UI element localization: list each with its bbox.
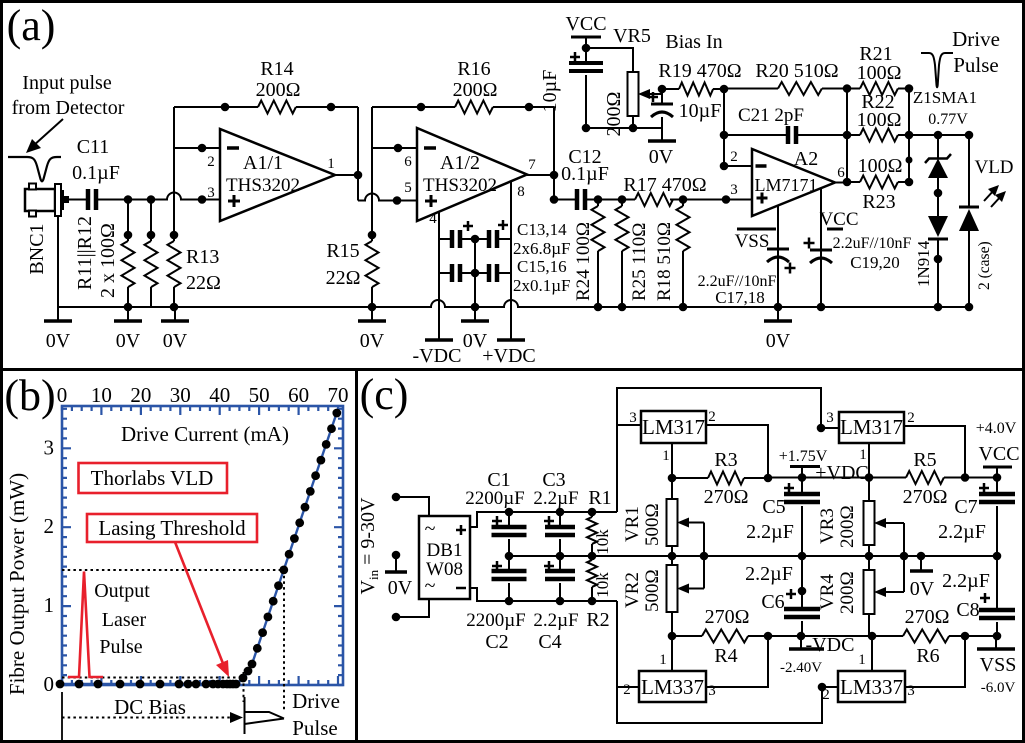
ground symbol R15 [371, 307, 373, 320]
VCC tick and label [827, 228, 843, 231]
svg-text:R19 470Ω: R19 470Ω [658, 60, 741, 82]
resistor R13 [173, 148, 175, 241]
resistor R2 10k [591, 556, 593, 560]
svg-text:70: 70 [328, 383, 349, 407]
svg-text:Pulse: Pulse [292, 716, 338, 740]
wire inverting node vertical of A2 [723, 89, 725, 166]
svg-text:Output: Output [94, 580, 150, 602]
resistor R23 100 [847, 181, 860, 183]
wire DB1 + output to top rail [470, 512, 617, 527]
svg-text:Drive: Drive [952, 27, 1000, 51]
capacitor C12 [575, 189, 580, 210]
svg-text:0V: 0V [649, 146, 674, 168]
axis ticks [62, 406, 343, 685]
svg-text:VCC: VCC [819, 209, 858, 230]
svg-text:1: 1 [662, 448, 670, 464]
wire A1/1 output node [335, 174, 358, 176]
svg-text:Input pulse: Input pulse [22, 72, 112, 94]
svg-text:R13: R13 [186, 246, 219, 268]
svg-text:2200µF: 2200µF [466, 610, 526, 631]
svg-text:200Ω: 200Ω [837, 571, 858, 614]
capacitor C4 2.2uF [559, 556, 561, 571]
svg-text:C21 2pF: C21 2pF [738, 105, 804, 126]
svg-text:Bias In: Bias In [665, 31, 722, 53]
svg-text:VR5: VR5 [613, 25, 651, 47]
decoupling caps C13,C14 row [439, 238, 452, 240]
VSS bar and label [737, 228, 776, 231]
svg-text:2: 2 [907, 410, 915, 426]
panel divider vertical [355, 370, 358, 743]
capacitor C21 2pF wire [724, 134, 788, 136]
svg-text:R17 470Ω: R17 470Ω [623, 174, 706, 196]
arrow to input pulse symbol [33, 119, 63, 146]
svg-text:20: 20 [130, 383, 151, 407]
ground symbol R11R12 [127, 307, 129, 320]
svg-text:C8: C8 [956, 599, 979, 621]
svg-text:LM317: LM317 [642, 415, 705, 439]
svg-text:C7: C7 [954, 496, 977, 518]
svg-text:DC Bias: DC Bias [114, 695, 186, 719]
svg-text:-VDC: -VDC [413, 345, 462, 367]
+VDC rail wire [768, 477, 869, 479]
svg-text:200Ω: 200Ω [603, 92, 625, 137]
red arrow to threshold point [175, 542, 224, 666]
wire raw + to regulators top [617, 388, 821, 512]
plot frame [62, 406, 343, 685]
svg-text:0V: 0V [163, 330, 188, 352]
dotted vertical at drive current [283, 570, 285, 712]
wire BNC pin to C11 [68, 199, 88, 201]
svg-text:3: 3 [907, 683, 915, 699]
svg-text:R6: R6 [916, 645, 939, 667]
wire LM317#2 out pin2 [904, 426, 965, 478]
wire C11 to A1/1 + input (hop over feedback tap) [96, 193, 220, 200]
bias 0V rail [586, 127, 662, 129]
svg-text:Z1SMA1: Z1SMA1 [913, 88, 977, 107]
svg-text:2.2uF//10nF: 2.2uF//10nF [833, 235, 912, 252]
wire output node to C12 [554, 199, 577, 201]
svg-text:Thorlabs VLD: Thorlabs VLD [91, 466, 214, 490]
wire VR5 bottom to 0V rail [632, 116, 634, 128]
wire A1/2 output [527, 174, 554, 176]
VLD emission arrows [984, 189, 995, 201]
feedback wire R14 top [174, 106, 258, 108]
svg-text:A1/2: A1/2 [440, 152, 480, 174]
svg-text:C4: C4 [538, 631, 561, 653]
red box Thorlabs VLD [79, 463, 228, 493]
resistor R6 270 (drawn on rail) [901, 627, 953, 645]
svg-text:10k: 10k [593, 572, 612, 598]
ground 0V bias [661, 128, 663, 140]
svg-text:0V: 0V [46, 330, 71, 352]
svg-text:270Ω: 270Ω [903, 486, 948, 508]
svg-text:200Ω: 200Ω [837, 505, 858, 548]
svg-text:VSS: VSS [980, 654, 1017, 676]
svg-text:3: 3 [730, 182, 738, 198]
svg-text:A1/1: A1/1 [243, 152, 283, 174]
resistor R24 [597, 200, 599, 207]
svg-text:-2.40V: -2.40V [780, 660, 822, 676]
capacitor C5 2.2uF [801, 478, 803, 495]
junction dots on input signal wire [124, 195, 133, 204]
ground symbol BNC [57, 307, 59, 320]
capacitor C7 2.2uF [996, 478, 998, 495]
0V stub on mid rail [920, 556, 922, 570]
feedback vertical wires [846, 89, 848, 183]
wire A1/1 inverting input pin 2 [174, 147, 220, 149]
resistor R5 270 [869, 477, 906, 479]
VR2 wiper wire [703, 556, 705, 589]
svg-text:R18 510Ω: R18 510Ω [654, 222, 675, 301]
svg-text:R4: R4 [714, 645, 737, 667]
wire feedback tap vertical (A1/1 inverting node) [173, 107, 175, 148]
svg-text:-6.0V: -6.0V [981, 680, 1016, 696]
svg-text:~: ~ [425, 575, 436, 597]
svg-text:2: 2 [207, 154, 215, 170]
wire LM337#2 adj pin1 [871, 636, 873, 671]
svg-text:C13,14: C13,14 [517, 220, 567, 239]
A2 VCC supply wire [820, 188, 822, 307]
svg-text:40: 40 [209, 383, 230, 407]
svg-text:Drive: Drive [292, 689, 340, 713]
svg-text:200Ω: 200Ω [256, 79, 301, 101]
data points [56, 680, 65, 689]
ground rail of panel a [58, 300, 969, 307]
svg-text:(b): (b) [4, 371, 55, 420]
resistor R16 [455, 101, 493, 114]
svg-text:R25 110Ω: R25 110Ω [629, 223, 650, 301]
wire A2 output to laser diodes [909, 134, 969, 136]
ground symbol R13 [174, 307, 176, 320]
svg-text:R3: R3 [714, 449, 737, 471]
svg-text:6: 6 [404, 154, 412, 170]
svg-text:2.2µF: 2.2µF [533, 488, 578, 509]
svg-text:50: 50 [249, 383, 270, 407]
wire stage2 feedback tap vertical [371, 107, 373, 241]
svg-text:BNC1: BNC1 [26, 223, 48, 274]
svg-text:C17,18: C17,18 [715, 288, 765, 307]
input pulse waveform symbol [8, 157, 61, 181]
svg-text:500Ω: 500Ω [642, 503, 663, 546]
svg-text:60: 60 [288, 383, 309, 407]
VCC symbol +4.0V [983, 466, 1012, 469]
wire C12 to A2 + input [585, 199, 635, 201]
op-amp U A1/1 THS3202 [220, 129, 335, 221]
svg-text:0V: 0V [388, 577, 413, 599]
svg-text:Laser: Laser [102, 609, 147, 631]
resistor R22 100 [847, 134, 860, 136]
VSS symbol [995, 636, 997, 648]
regulator LM317 #2 [839, 412, 904, 443]
svg-text:2200µF: 2200µF [465, 488, 525, 509]
svg-text:3: 3 [629, 410, 637, 426]
wire LM337#1 out pin3 [706, 636, 768, 687]
svg-text:2x0.1µF: 2x0.1µF [513, 276, 571, 295]
svg-text:A2: A2 [794, 148, 818, 170]
svg-text:VCC: VCC [565, 13, 606, 35]
svg-text:R14: R14 [260, 58, 293, 80]
svg-text:6: 6 [837, 165, 845, 181]
svg-text:THS3202: THS3202 [226, 175, 300, 196]
svg-text:Drive Current (mA): Drive Current (mA) [121, 422, 289, 446]
svg-text:VLD: VLD [974, 157, 1013, 178]
wire A2 pin 2 [724, 165, 752, 167]
resistor R12 (R11||R12 pair, right) [150, 200, 152, 242]
wire output down to C12 [553, 175, 555, 200]
feedback wire R16 top [372, 106, 455, 108]
wire R16 right to output node [553, 107, 555, 175]
svg-text:3: 3 [708, 683, 716, 699]
capacitor C6 2.2uF [801, 556, 803, 609]
svg-text:+4.0V: +4.0V [976, 420, 1017, 437]
red box Lasing Threshold [87, 514, 257, 542]
svg-text:5: 5 [404, 180, 412, 196]
svg-text:2: 2 [822, 687, 830, 703]
svg-text:R24 100Ω: R24 100Ω [573, 222, 594, 301]
zener Z1SMA1 [937, 135, 939, 158]
svg-text:+VDC: +VDC [815, 462, 869, 484]
wire DB1 - output to bottom rail [470, 588, 617, 601]
dotted threshold level line [62, 569, 284, 571]
svg-text:DB1: DB1 [427, 540, 463, 561]
regulator LM337 #1 [639, 671, 706, 702]
svg-text:0.1µF: 0.1µF [561, 163, 609, 185]
svg-text:270Ω: 270Ω [905, 606, 950, 628]
svg-text:7: 7 [528, 157, 536, 173]
wire LM317#1 adj pin1 [671, 443, 673, 478]
svg-text:2.2µF: 2.2µF [745, 563, 793, 585]
svg-text:from Detector: from Detector [12, 97, 125, 119]
svg-text:2: 2 [44, 514, 55, 538]
ground +VDC [510, 338, 512, 340]
wire LM337#2 out pin3 [905, 636, 965, 687]
middle 0V rail [509, 555, 997, 557]
svg-text:(a): (a) [7, 1, 56, 50]
capacitor C8 2.2uF [996, 556, 998, 610]
+VDC symbol [790, 465, 820, 468]
wire pin 4 supply of A1/2 [438, 212, 440, 338]
capacitor C19,20 (curved) [810, 249, 832, 252]
svg-text:2: 2 [623, 682, 631, 698]
svg-text:2 (case): 2 (case) [976, 241, 993, 290]
wire VR5 wiper node [661, 89, 663, 104]
svg-text:0V: 0V [766, 330, 791, 352]
svg-text:C5: C5 [762, 496, 785, 518]
svg-text:R11||R12: R11||R12 [74, 216, 96, 290]
svg-text:0V: 0V [360, 330, 385, 352]
resistor R20 510 [724, 88, 778, 90]
svg-text:3: 3 [44, 435, 55, 459]
A2 VSS supply wire [777, 205, 779, 307]
svg-text:270Ω: 270Ω [705, 606, 750, 628]
input terminal top [392, 493, 401, 502]
svg-text:1: 1 [858, 652, 866, 668]
svg-text:2.2µF: 2.2µF [938, 521, 986, 543]
svg-text:LM7171: LM7171 [755, 175, 818, 195]
svg-text:(c): (c) [360, 370, 409, 419]
red output laser pulse spike [68, 572, 103, 678]
VR1 wiper wire [703, 523, 705, 557]
svg-text:R15: R15 [326, 240, 359, 262]
BNC1 connector [25, 189, 55, 211]
input terminal mid 0V [392, 551, 401, 560]
resistor R25 [621, 200, 623, 207]
ground -VDC [438, 338, 440, 340]
potentiometer VR3 200 [868, 478, 870, 502]
svg-text:0: 0 [57, 383, 68, 407]
svg-text:1: 1 [327, 156, 335, 172]
svg-text:1N914: 1N914 [914, 240, 933, 287]
wire R14 right to output node [357, 107, 359, 175]
DC Bias dotted arrow [62, 717, 230, 719]
svg-text:VCC: VCC [978, 443, 1019, 465]
wire LM317#2 adj pin1 [868, 443, 870, 478]
capacitor C3 2.2uF [559, 512, 561, 527]
svg-text:1: 1 [44, 593, 55, 617]
resistor R4 270 (drawn on rail) [700, 627, 752, 645]
svg-text:1: 1 [859, 447, 867, 463]
svg-text:1: 1 [659, 652, 667, 668]
potentiometer VR2 500 [671, 556, 673, 565]
svg-text:270Ω: 270Ω [704, 486, 749, 508]
svg-text:2: 2 [708, 409, 716, 425]
svg-text:10µF: 10µF [539, 70, 561, 113]
svg-text:2.2µF: 2.2µF [746, 521, 794, 543]
svg-text:C19,20: C19,20 [850, 253, 900, 272]
-VDC symbol [800, 636, 802, 648]
dotted vertical at threshold current [243, 672, 245, 702]
svg-text:2.2µF: 2.2µF [533, 610, 578, 631]
op-amp U A1/2 THS3202 [417, 128, 527, 221]
svg-text:500Ω: 500Ω [642, 569, 663, 612]
ground 0V under C17,18 [777, 307, 779, 320]
svg-text:Pulse: Pulse [99, 636, 142, 658]
wire VCC node to VR5 top [586, 48, 633, 72]
svg-text:Pulse: Pulse [953, 53, 999, 77]
resistor R1 10k [591, 512, 593, 517]
wire LM337#1 adj pin1 [671, 636, 673, 671]
svg-text:100Ω: 100Ω [858, 155, 903, 177]
svg-text:22Ω: 22Ω [186, 272, 221, 294]
dotted zero level line [62, 677, 244, 679]
input terminal bottom [392, 613, 401, 622]
svg-text:30: 30 [170, 383, 191, 407]
VR3 wiper wire [903, 523, 905, 556]
wire pin 8 supply of A1/2 [510, 182, 512, 338]
svg-text:0V: 0V [116, 330, 141, 352]
diode 1N914 [928, 216, 948, 237]
svg-text:8: 8 [517, 184, 525, 200]
svg-text:22Ω: 22Ω [326, 267, 361, 289]
svg-text:VSS: VSS [735, 231, 770, 252]
capacitor C1 2200uF [508, 512, 510, 527]
capacitor C11 [86, 189, 91, 210]
panel divider horizontal [0, 368, 1025, 371]
wire output to A1/2 + input (hop over stage2 feedback tap) [358, 175, 417, 201]
wire A1/2 inverting input pin 6 [372, 147, 417, 149]
wire LM337#2 input pin2 [822, 686, 838, 688]
svg-text:R20 510Ω: R20 510Ω [755, 60, 838, 82]
svg-text:C11: C11 [77, 136, 110, 158]
svg-text:C2: C2 [485, 631, 508, 653]
svg-text:100Ω: 100Ω [857, 62, 902, 84]
svg-text:R23: R23 [862, 191, 895, 213]
svg-text:0: 0 [44, 672, 55, 696]
svg-text:10µF: 10µF [679, 100, 722, 122]
DC bias left boundary line [61, 692, 63, 741]
svg-text:Fibre Output Power (mW): Fibre Output Power (mW) [5, 473, 29, 695]
potentiometer VR5 200 [628, 72, 639, 116]
svg-text:2x6.8µF: 2x6.8µF [513, 239, 571, 258]
data curve (blue) [62, 412, 337, 684]
svg-text:C15,16: C15,16 [517, 257, 567, 276]
svg-text:R2: R2 [586, 609, 609, 631]
svg-text:+VDC: +VDC [482, 345, 536, 367]
wire raw - to LM337 loop [617, 601, 822, 723]
potentiometer VR1 500 [671, 478, 673, 499]
laser diode VLD [968, 135, 970, 207]
svg-text:0.1µF: 0.1µF [72, 162, 120, 184]
svg-text:R16: R16 [457, 58, 490, 80]
svg-text:VR2: VR2 [622, 572, 643, 608]
svg-text:2.2µF: 2.2µF [942, 570, 990, 592]
svg-text:Lasing Threshold: Lasing Threshold [98, 516, 246, 540]
svg-text:100Ω: 100Ω [857, 109, 902, 131]
resistor R11 (R11||R12 pair, left) [127, 200, 129, 242]
negative rail wire [672, 635, 997, 637]
svg-text:3: 3 [826, 410, 834, 426]
svg-text:3: 3 [207, 185, 215, 201]
svg-text:200Ω: 200Ω [453, 79, 498, 101]
wire cap midpoint to 0V [474, 239, 476, 273]
svg-text:-VDC: -VDC [806, 634, 855, 656]
capacitor 10uF VCC (polarized) [585, 48, 587, 63]
svg-text:LM337: LM337 [641, 675, 704, 699]
resistor R14 [258, 101, 296, 114]
svg-text:2: 2 [730, 149, 738, 165]
svg-text:VR3: VR3 [817, 508, 838, 544]
svg-text:0.77V: 0.77V [928, 111, 968, 128]
svg-text:4: 4 [429, 211, 437, 227]
svg-text:R5: R5 [913, 449, 936, 471]
svg-text:0V: 0V [910, 578, 935, 600]
decoupling caps C15,C16 row [439, 272, 452, 274]
svg-text:LM317: LM317 [840, 415, 903, 439]
svg-text:C6: C6 [761, 591, 784, 613]
ground 0V mid [474, 307, 476, 320]
wire BNC shell to ground rail [57, 216, 59, 307]
wire A2 output [835, 182, 847, 184]
svg-text:VR4: VR4 [817, 574, 838, 610]
bridge rectifier DB1 W08 [419, 516, 470, 599]
svg-text:~: ~ [425, 518, 436, 540]
regulator LM337 #2 [838, 671, 905, 702]
wire to VCC node [965, 477, 997, 479]
op-amp U A2 LM7171 [752, 149, 835, 216]
svg-text:LM337: LM337 [840, 675, 903, 699]
drive pulse waveform symbol [921, 53, 953, 87]
svg-text:2 x 100Ω: 2 x 100Ω [97, 223, 119, 298]
capacitor C2 2200uF [508, 556, 510, 571]
svg-text:THS3202: THS3202 [423, 175, 497, 196]
regulator LM317 #1 [641, 411, 706, 443]
capacitor 10uF bias (curved) [651, 103, 673, 106]
svg-text:10k: 10k [593, 529, 612, 555]
resistor R3 270 [672, 477, 708, 479]
resistor R18 [682, 200, 684, 207]
capacitor C17,18 (curved) [767, 248, 789, 251]
svg-text:10: 10 [91, 383, 112, 407]
